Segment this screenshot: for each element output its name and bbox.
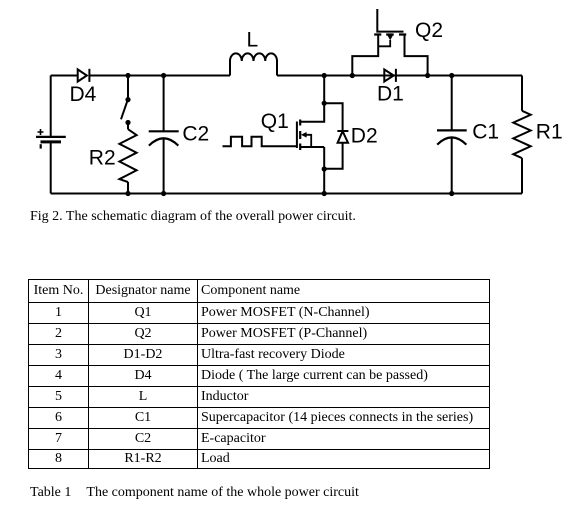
wire Q1 source down [323, 147, 325, 194]
diode D2 [337, 131, 348, 143]
diode D1 [384, 69, 396, 82]
svg-text:C2: C2 [182, 123, 209, 146]
junction dots [125, 73, 454, 196]
resistor R2 [119, 129, 136, 182]
transistor Q2 [352, 9, 427, 76]
label Q1 [261, 110, 289, 133]
label D2 [351, 125, 378, 148]
transistor Q1 [297, 103, 324, 150]
wire C1 stem bottom [451, 138, 453, 194]
wire D2 bottom link [324, 143, 342, 169]
label Q2 [415, 19, 443, 42]
label L [247, 28, 259, 51]
label C1 [472, 120, 499, 143]
wire R2 to bottom rail [127, 182, 129, 194]
svg-text:Q2: Q2 [415, 19, 443, 42]
label D1 [377, 82, 404, 105]
wire switch to R2 [127, 123, 129, 130]
label R1 [536, 120, 562, 143]
wire battery to bottom rail [50, 143, 52, 194]
svg-text:Q1: Q1 [261, 110, 289, 133]
inductor L [230, 53, 277, 75]
wire C2 stem top [163, 76, 165, 132]
wire left vertical (battery branch) [50, 76, 52, 137]
svg-text:R1: R1 [536, 120, 562, 143]
svg-text:C1: C1 [472, 120, 499, 143]
wire top rail left [51, 75, 78, 77]
gate pulse waveform [223, 137, 297, 147]
wire R1 top [521, 76, 523, 111]
capacitor C2 [149, 131, 179, 145]
switch S1 [121, 97, 131, 125]
svg-text:R2: R2 [89, 147, 116, 170]
svg-text:L: L [247, 28, 259, 51]
wire R1 bottom [521, 158, 523, 193]
resistor R1 [513, 111, 530, 158]
battery BT1 [36, 129, 66, 149]
wire switch stem [127, 76, 129, 100]
wire D2 top link [324, 103, 342, 131]
capacitor C1 [437, 130, 467, 144]
wire bottom rail [51, 193, 522, 195]
wire L-node vertical [323, 76, 325, 104]
wire C1 stem top [451, 76, 453, 131]
svg-text:D2: D2 [351, 125, 378, 148]
label D4 [70, 83, 97, 106]
diode D4 [78, 69, 90, 82]
wire top rail right [277, 75, 522, 77]
component table [28, 279, 490, 469]
wire top rail mid [89, 75, 230, 77]
svg-text:D1: D1 [377, 82, 404, 105]
figure caption [30, 209, 356, 225]
table caption [30, 485, 359, 501]
label R2 [89, 147, 116, 170]
svg-text:D4: D4 [70, 83, 97, 106]
wire C2 stem bottom [163, 139, 165, 194]
label C2 [182, 123, 209, 146]
